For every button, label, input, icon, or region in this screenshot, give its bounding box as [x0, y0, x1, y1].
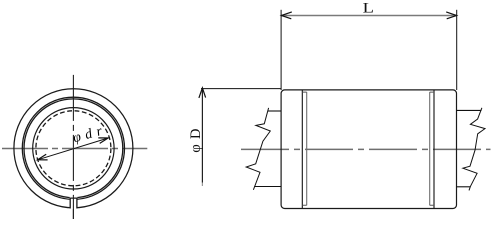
arrowhead upper-right: [98, 138, 108, 144]
cap OD circle (outer of pair): [22, 97, 124, 199]
left groove floors: [302, 92, 306, 205]
arrowhead lower-left: [38, 154, 48, 160]
L dimension line: [281, 15, 456, 17]
shaft break line left: [246, 108, 270, 190]
shaft top line right: [456, 109, 481, 111]
phi D dimension line: [201, 88, 203, 182]
left groove edge (black): [301, 90, 303, 208]
outer circle (outer ring OD): [14, 89, 133, 208]
right groove edge (black): [433, 90, 435, 208]
shaft bottom line left: [254, 186, 281, 188]
L extension line right: [456, 10, 458, 90]
horizontal centerline (right view): [241, 148, 491, 150]
right groove floors: [430, 92, 434, 205]
horizontal centerline (left view): [2, 148, 147, 150]
phi D arrowhead up: [199, 88, 206, 98]
vertical centerline: [72, 75, 74, 219]
diameter dimension line (phi dr): [38, 138, 109, 160]
svg-text:φ D: φ D: [188, 128, 204, 153]
L arrowhead left: [281, 12, 291, 19]
shaft break line right: [463, 108, 485, 191]
bore circle: [33, 108, 114, 189]
bottom slot outline: [70, 198, 77, 209]
centerline through slot: [72, 197, 74, 219]
shaft top line left: [268, 110, 281, 112]
L arrowhead right: [446, 12, 456, 19]
phi D extension line: [201, 88, 281, 90]
shaft bottom line right: [456, 186, 470, 188]
cap OD circle (inner of pair): [24, 99, 123, 198]
bottom slot (split in ring) white knockout: [70, 197, 78, 210]
right groove bottom (gray): [429, 92, 431, 205]
L extension line left: [280, 10, 282, 90]
body outline: [281, 90, 456, 209]
svg-text:L: L: [363, 0, 374, 16]
left groove bottom (gray): [306, 92, 308, 205]
dashed shaft circle (dr): [36, 111, 111, 186]
